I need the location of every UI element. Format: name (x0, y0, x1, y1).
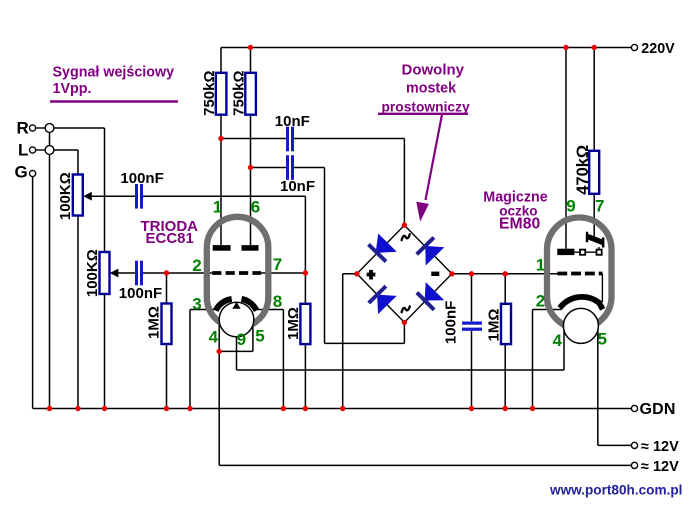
svg-text:1: 1 (213, 197, 222, 216)
resistor R4 1MΩ (300, 304, 310, 344)
tube ECC81 anode bar pin1 (213, 245, 231, 251)
wire resistor R1 750k top lead (220, 48, 222, 73)
bridge minus sign (431, 272, 439, 276)
svg-text:100nF: 100nF (120, 170, 163, 187)
svg-text:470kΩ: 470kΩ (574, 145, 592, 195)
wire input common vertical to ground bus (49, 128, 51, 409)
diode D2 top-right (425, 246, 444, 266)
bridge rectifier diamond outline (357, 225, 452, 322)
svg-text:1MΩ: 1MΩ (485, 309, 502, 342)
wire input L to potentiometer P1 top (54, 150, 78, 175)
capacitor C5 100nF plates (462, 322, 482, 325)
terminal 220V circle (631, 44, 637, 50)
tube ECC81 grid dashed line (212, 271, 261, 275)
bridge tilde bottom (402, 306, 410, 312)
tube ECC81 heater circle (219, 302, 254, 337)
terminal 12V line1 circle (631, 442, 637, 448)
wire ECC81 pin7 to resistor R4 1M and grid row (261, 273, 305, 409)
input terminal L circle (29, 147, 35, 153)
wire ECC81 pin8 cathode to ground bus (255, 310, 284, 409)
svg-text:10nF: 10nF (280, 178, 315, 195)
tube EM80 electrode square 2 (597, 250, 602, 255)
wire top supply rail to 220V (221, 47, 631, 49)
tube EM80 grid to cathode link (601, 274, 603, 303)
svg-text:9: 9 (237, 330, 246, 349)
terminal GDN circle (631, 405, 637, 411)
svg-text:100KΩ: 100KΩ (84, 249, 101, 297)
input terminal G circle (29, 170, 35, 176)
tube EM80 deflection bar electrode (557, 249, 574, 255)
wire input G down to ground bus (32, 177, 34, 409)
wire ECC81 pin3 cathode to ground bus (190, 310, 215, 409)
wire bridge minus output to EM80 pin1 grid (452, 273, 557, 275)
svg-text:prostowniczy: prostowniczy (382, 100, 470, 115)
tube EM80 heater circle (563, 308, 598, 343)
wire resistor R6 470k leads to EM80 pin7 (593, 48, 595, 238)
bridge tilde top (402, 234, 410, 240)
svg-text:8: 8 (273, 292, 282, 311)
svg-text:1MΩ: 1MΩ (285, 307, 302, 340)
svg-text:10nF: 10nF (275, 113, 310, 130)
note input signal underline (50, 100, 178, 102)
resistor R3 1MΩ (162, 304, 172, 345)
tube EM80 envelope (547, 218, 612, 329)
tube EM80 electrode connector wires (574, 247, 599, 252)
junction dots bridge vertices (402, 223, 407, 228)
svg-text:G: G (15, 163, 28, 182)
input junction circle R (45, 124, 54, 133)
wire node A to capacitor C1 10nF and bridge top (221, 139, 404, 226)
wire node B to capacitor C2 10nF and bridge bottom (251, 168, 405, 344)
resistor R1 750kΩ (216, 73, 227, 115)
capacitor C4 100nF plates (135, 261, 138, 286)
junction dot node B (248, 165, 253, 170)
svg-text:1Vpp.: 1Vpp. (53, 81, 92, 97)
diode D1 top-left (376, 234, 397, 254)
wire EM80 pin5 heater to 12V line 1 (598, 326, 632, 445)
wire resistor R3 1M leads (166, 273, 168, 409)
diode D4 bottom-right (425, 282, 445, 300)
svg-text:750kΩ: 750kΩ (201, 70, 218, 115)
tube ECC81 heater V apex (232, 302, 240, 309)
input terminal R circle (29, 125, 35, 131)
wire potentiometer P1 bottom lead to ground bus (77, 216, 79, 409)
svg-text:Sygnał wejściowy: Sygnał wejściowy (53, 65, 175, 81)
svg-text:2: 2 (536, 291, 545, 310)
svg-text:750kΩ: 750kΩ (231, 70, 248, 115)
resistor R2 750kΩ (245, 73, 256, 115)
junction dots top rail (248, 45, 253, 50)
svg-text:EM80: EM80 (499, 216, 540, 233)
junction dot ECC81 heater join (217, 349, 222, 354)
wire resistor R2 750k top lead (250, 48, 252, 73)
potentiometer P1 100KΩ body (73, 175, 83, 216)
svg-text:100nF: 100nF (442, 301, 459, 344)
wire potentiometer P2 wiper through C4 100nF to ECC81 pin2 grid (117, 272, 212, 274)
capacitor C1 10nF plates (286, 127, 289, 152)
svg-text:7: 7 (595, 197, 604, 216)
svg-text:220V: 220V (641, 41, 675, 57)
svg-text:1: 1 (536, 256, 545, 275)
terminal 12V line2 circle (631, 462, 637, 468)
wire ECC81 heater pins 4 and 5 joined (219, 317, 253, 351)
svg-text:≈ 12V: ≈ 12V (641, 439, 679, 455)
wire ground bus GDN (33, 408, 632, 410)
svg-text:www.port80h.com.pl: www.port80h.com.pl (549, 482, 682, 497)
wire resistor R5 1M leads (504, 274, 506, 409)
svg-text:9: 9 (566, 197, 575, 216)
note bridge underline (378, 113, 468, 115)
tube EM80 target electrode slant bar (588, 237, 603, 243)
wire input R to potentiometer P2 top (54, 128, 105, 252)
bridge plus sign (367, 273, 376, 277)
tube ECC81 cathode arc left (216, 299, 232, 311)
tube ECC81 anode bar pin6 (242, 245, 259, 251)
wire potentiometer P1 wiper through C3 100nF to ECC81 pin7 grid (91, 196, 305, 273)
wire ECC81 heater to 12V line 2 (219, 351, 631, 465)
svg-text:ECC81: ECC81 (146, 230, 194, 247)
input junction circle L (45, 146, 54, 155)
potentiometer P2 wiper arrow (110, 269, 119, 278)
svg-text:100nF: 100nF (119, 285, 162, 302)
potentiometer P1 wiper arrow (83, 192, 92, 201)
svg-text:5: 5 (255, 326, 264, 345)
capacitor C2 10nF plates (286, 155, 289, 180)
junction dot ECC81 pin7 (303, 270, 308, 275)
resistor R6 470kΩ (589, 151, 599, 194)
svg-text:Dowolny: Dowolny (402, 61, 465, 78)
wire bridge plus output to ground bus (343, 274, 357, 409)
svg-text:GDN: GDN (640, 401, 676, 418)
svg-text:6: 6 (251, 197, 260, 216)
wire resistor R1 750k bottom lead to ECC81 pin1 anode (220, 115, 222, 245)
wire potentiometer P2 bottom lead to ground bus (104, 294, 106, 409)
svg-text:≈ 12V: ≈ 12V (641, 459, 679, 475)
tube EM80 grid dashed line (557, 272, 602, 276)
svg-text:R: R (17, 119, 29, 138)
potentiometer P2 100KΩ body (100, 252, 110, 294)
svg-text:100KΩ: 100KΩ (57, 172, 74, 220)
svg-text:2: 2 (192, 256, 201, 275)
wire resistor R2 750k bottom lead to ECC81 pin6 anode (250, 115, 252, 245)
junction dots bridge output row (469, 271, 474, 276)
svg-text:3: 3 (192, 294, 201, 313)
svg-text:mostek: mostek (406, 81, 456, 97)
svg-text:4: 4 (209, 327, 219, 346)
junction dots ground bus (47, 406, 52, 411)
wire capacitor C5 100nF leads (471, 274, 473, 409)
svg-text:4: 4 (553, 331, 563, 350)
svg-text:L: L (18, 141, 28, 160)
resistor R5 1MΩ (501, 304, 511, 344)
tube ECC81 cathode arc right (242, 299, 257, 311)
svg-text:5: 5 (598, 330, 607, 349)
svg-text:7: 7 (273, 255, 282, 274)
wire EM80 pin2 cathode to ground bus (533, 310, 562, 409)
junction dot node A (218, 136, 223, 141)
wire EM80 pin9 lead from supply rail (565, 48, 567, 249)
tube EM80 electrode square 1 (580, 250, 585, 255)
wire ECC81 pin9 heater tap to EM80 pin4 heater bus (237, 303, 565, 370)
junction dot C4 to R3 (164, 270, 169, 275)
svg-text:1MΩ: 1MΩ (145, 306, 162, 339)
tube EM80 cathode arc (560, 297, 603, 309)
diode D3 bottom-left (377, 295, 397, 315)
note arrow to bridge (426, 115, 443, 201)
capacitor C3 100nF plates (135, 184, 138, 209)
tube ECC81 envelope (207, 217, 268, 328)
